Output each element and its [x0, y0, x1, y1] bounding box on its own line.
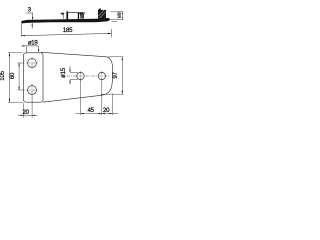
svg-text:97: 97 — [112, 72, 119, 79]
svg-text:45: 45 — [87, 107, 94, 114]
svg-text:20: 20 — [103, 107, 110, 114]
svg-text:20: 20 — [22, 109, 29, 116]
svg-text:ø15: ø15 — [60, 67, 67, 78]
svg-text:ø19: ø19 — [28, 39, 39, 46]
svg-text:15: 15 — [117, 15, 121, 19]
svg-text:105: 105 — [0, 70, 6, 80]
svg-text:185: 185 — [63, 27, 73, 34]
svg-text:60: 60 — [9, 72, 16, 79]
